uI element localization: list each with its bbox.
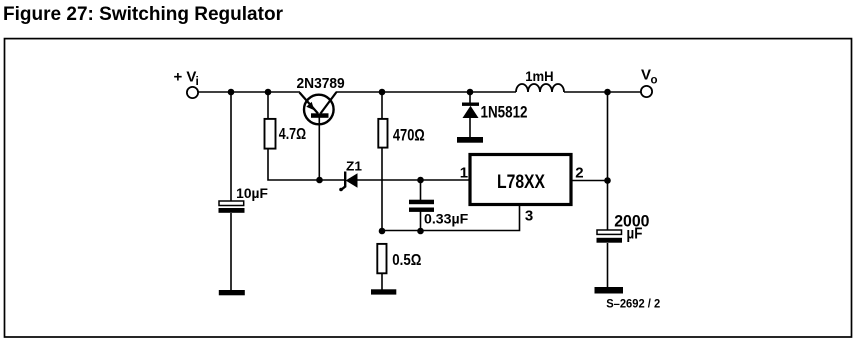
- svg-text:i: i: [196, 74, 199, 88]
- svg-text:o: o: [651, 75, 658, 87]
- svg-text:Figure 27: Switching Regulator: Figure 27: Switching Regulator: [3, 3, 283, 25]
- svg-text:470Ω: 470Ω: [393, 125, 425, 144]
- svg-text:3: 3: [525, 208, 533, 225]
- svg-text:0.5Ω: 0.5Ω: [392, 252, 421, 269]
- svg-text:10µF: 10µF: [236, 186, 268, 201]
- svg-text:0.33µF: 0.33µF: [424, 211, 469, 227]
- svg-text:4.7Ω: 4.7Ω: [279, 126, 306, 143]
- svg-text:L78XX: L78XX: [497, 172, 545, 193]
- svg-text:1N5812: 1N5812: [481, 103, 528, 122]
- svg-text:S–2692 / 2: S–2692 / 2: [606, 297, 660, 311]
- svg-text:Z1: Z1: [346, 158, 362, 173]
- svg-text:2N3789: 2N3789: [297, 76, 345, 92]
- svg-text:+ V: + V: [174, 69, 197, 86]
- svg-text:V: V: [641, 67, 651, 84]
- svg-text:2: 2: [575, 164, 583, 181]
- svg-text:1: 1: [460, 164, 468, 181]
- svg-text:1mH: 1mH: [525, 69, 553, 84]
- svg-text:µF: µF: [627, 226, 643, 243]
